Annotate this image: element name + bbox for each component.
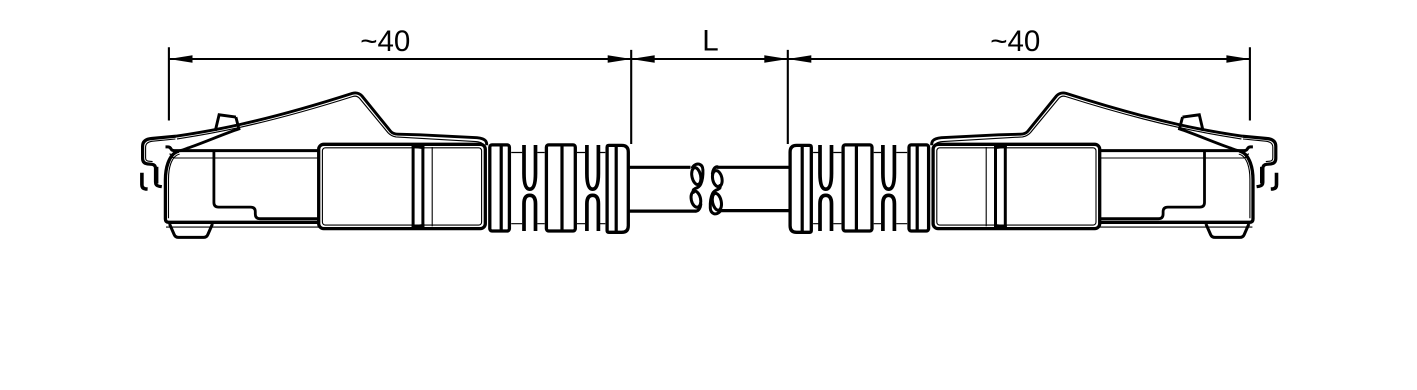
- svg-text:~40: ~40: [360, 25, 410, 58]
- svg-text:L: L: [702, 25, 718, 58]
- svg-text:~40: ~40: [990, 25, 1040, 58]
